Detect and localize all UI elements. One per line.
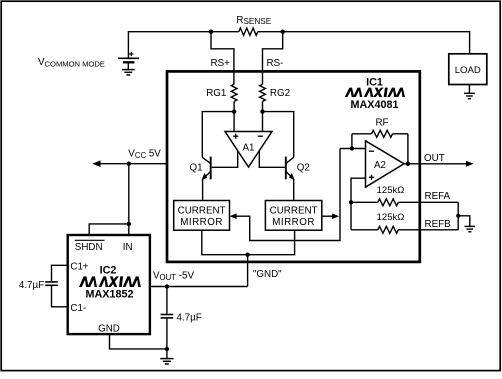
resistor 125k (REFB) xyxy=(351,229,378,231)
wire: Vcm to Rsense left node xyxy=(128,32,211,58)
node: VCC tap xyxy=(127,162,131,166)
node: A2 output xyxy=(406,162,410,166)
node: Rsense left junction xyxy=(209,30,213,34)
wire: VOUT to cap xyxy=(166,287,168,314)
current mirror box (left) xyxy=(174,201,230,231)
wire: REF to ground xyxy=(458,216,470,227)
wire: REFA-REFB tie xyxy=(457,202,459,230)
svg-text:C1-: C1- xyxy=(70,303,86,314)
wire: stem to ground xyxy=(166,349,168,359)
wire: cap to gnd node xyxy=(166,319,168,349)
svg-text:"GND": "GND" xyxy=(253,269,282,280)
svg-text:C1+: C1+ xyxy=(70,261,89,272)
svg-text:4.7µF: 4.7µF xyxy=(177,312,202,323)
svg-text:Q2: Q2 xyxy=(297,162,310,173)
wire: A1 - input xyxy=(262,112,264,132)
wire: cap to C1- xyxy=(52,286,68,307)
svg-text:VOUT -5V: VOUT -5V xyxy=(153,271,194,282)
wire: RS+ sense line xyxy=(211,32,234,84)
ground (LOAD) xyxy=(464,92,475,94)
op-amp A1 xyxy=(225,132,272,168)
wire: mirrors common bottom xyxy=(202,230,295,255)
resistor RG2 xyxy=(260,84,266,101)
svg-text:MIRROR: MIRROR xyxy=(180,217,223,228)
svg-text:OUT: OUT xyxy=(424,153,445,164)
svg-text:GND: GND xyxy=(98,324,120,335)
resistor RG1 xyxy=(231,84,237,101)
svg-text:SHDN: SHDN xyxy=(75,242,103,253)
node: VOUT cap tap xyxy=(165,284,169,288)
svg-text:VCOMMON MODE: VCOMMON MODE xyxy=(38,57,105,68)
svg-text:IN: IN xyxy=(123,242,133,253)
battery VCOMMON MODE xyxy=(118,57,139,59)
wire: RG2 node to Q2 collector xyxy=(263,112,294,158)
svg-text:VCC 5V: VCC 5V xyxy=(128,149,161,160)
wire: C1+ to cap xyxy=(52,265,68,281)
node: + input to REF divider xyxy=(349,200,353,204)
wire: RS- sense line xyxy=(263,32,283,84)
arrow VCC xyxy=(92,160,100,167)
svg-text:CURRENT: CURRENT xyxy=(178,206,226,217)
svg-text:MIRROR: MIRROR xyxy=(272,217,315,228)
node: REF tie xyxy=(456,214,460,218)
wire: A2 + input xyxy=(351,178,366,230)
ground (output) xyxy=(160,358,173,360)
svg-text:RSENSE: RSENSE xyxy=(236,15,271,26)
wire: VCC rail xyxy=(97,163,167,165)
wire: A1 left output to Q1 base xyxy=(212,151,238,168)
svg-text:LOAD: LOAD xyxy=(455,65,481,76)
transistor Q1 xyxy=(202,157,210,201)
wire: A1 right output to Q2 base xyxy=(259,151,285,168)
wire: feedback from A2 - input to mirrors xyxy=(234,149,341,241)
svg-text:RG1: RG1 xyxy=(206,88,226,99)
wire: A1 + input xyxy=(233,112,235,132)
capacitor C1 4.7uF xyxy=(45,281,58,283)
MAXIM logo (IC2) xyxy=(79,276,141,287)
LOAD box xyxy=(449,54,487,85)
svg-text:RF: RF xyxy=(375,117,388,128)
wire: to SHDN pin xyxy=(89,224,129,235)
node: RF tap xyxy=(350,146,354,150)
op-amp A2 xyxy=(366,141,405,187)
current mirror box (right) xyxy=(265,201,321,231)
ground (REF) xyxy=(465,225,476,227)
svg-text:REFB: REFB xyxy=(425,219,452,230)
arrow out of right mirror xyxy=(322,215,333,217)
svg-text:REFA: REFA xyxy=(425,191,451,202)
IC2 MAX1852 box xyxy=(68,235,150,334)
svg-text:125kΩ: 125kΩ xyxy=(377,185,405,196)
wire: VCC down to IC2 IN xyxy=(128,164,130,235)
IC1 MAX4081 box xyxy=(167,71,420,262)
svg-text:IC1: IC1 xyxy=(366,77,383,89)
svg-text:CURRENT: CURRENT xyxy=(270,206,318,217)
svg-text:MAX1852: MAX1852 xyxy=(85,288,133,300)
node: gnd junction xyxy=(165,347,169,351)
MAXIM logo (IC1) xyxy=(345,88,405,97)
svg-text:125kΩ: 125kΩ xyxy=(377,212,405,223)
capacitor C2 4.7uF xyxy=(161,314,174,316)
svg-text:RS-: RS- xyxy=(267,58,284,69)
resistor RSENSE xyxy=(211,31,239,33)
svg-text:IC2: IC2 xyxy=(100,265,117,277)
wire: RG1 node to Q1 collector xyxy=(202,112,234,158)
wire: A2 - input xyxy=(340,148,366,150)
svg-text:4.7µF: 4.7µF xyxy=(19,280,44,291)
svg-text:MAX4081: MAX4081 xyxy=(350,99,398,111)
wire: OUT xyxy=(404,163,468,165)
node: SHDN branch xyxy=(127,222,131,226)
resistor 125k (REFA) xyxy=(351,201,378,203)
arrow OUT xyxy=(466,161,474,167)
ground (Vcm) xyxy=(122,69,135,71)
node: RG2 bottom xyxy=(260,109,264,113)
node: GND net junction xyxy=(245,253,249,257)
wire: VOUT rail xyxy=(150,286,248,288)
svg-text:A1: A1 xyxy=(243,143,255,154)
node: RG1 bottom xyxy=(232,109,236,113)
svg-text:A2: A2 xyxy=(374,160,386,171)
resistor RF xyxy=(351,134,353,149)
wire: GND net to VOUT rail xyxy=(247,255,249,287)
wire: IC2 GND pin xyxy=(110,334,167,349)
svg-text:Q1: Q1 xyxy=(189,162,202,173)
node: Rsense right junction xyxy=(281,30,285,34)
transistor Q2 xyxy=(286,157,294,201)
wire: Rsense right to LOAD xyxy=(283,32,470,54)
svg-text:RS+: RS+ xyxy=(211,58,231,69)
svg-text:RG2: RG2 xyxy=(270,88,290,99)
wire: LOAD to ground xyxy=(468,85,470,94)
arrow into left mirror xyxy=(230,213,237,219)
